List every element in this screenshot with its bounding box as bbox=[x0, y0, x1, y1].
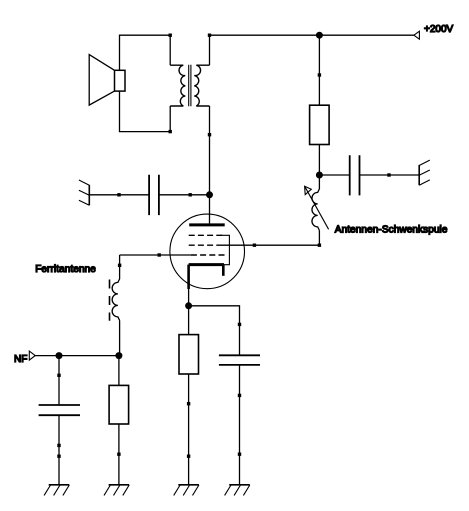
pin marker on L1 top lead bbox=[118, 264, 121, 267]
arrow through L2 bbox=[305, 186, 329, 229]
node junction NF / C4 bbox=[56, 352, 63, 359]
wire R2 bottom to ground bbox=[188, 374, 190, 485]
tube V1 cathode bbox=[189, 263, 224, 266]
wire C4 to ground bbox=[58, 415, 60, 485]
pin marker on C1 right wire bbox=[189, 193, 192, 196]
wire node to R2 bbox=[188, 306, 190, 335]
pin marker transformer secondary bottom bbox=[208, 133, 211, 136]
svg-text:Antennen-Schwenkspule: Antennen-Schwenkspule bbox=[335, 224, 448, 235]
pin marker on R3 ground wire bbox=[117, 453, 120, 456]
pin marker on C4 ground wire lower bbox=[57, 455, 60, 458]
tube V1 cathode left leg thick bbox=[187, 265, 190, 289]
tube V1 plate bbox=[189, 223, 225, 226]
wire g1 to ferrite antenna bbox=[120, 254, 191, 256]
pin marker on R1 top wire bbox=[318, 73, 321, 76]
pin marker on R2 ground wire lower bbox=[187, 455, 190, 458]
svg-text:+200V: +200V bbox=[424, 24, 454, 35]
pin marker transformer primary bottom bbox=[169, 130, 172, 133]
wire speaker bottom to transformer primary bbox=[120, 91, 171, 132]
pin marker corner L2/g2 wire bbox=[318, 244, 321, 247]
transformer TR1 primary coil bbox=[170, 65, 185, 106]
wire R3 bottom to ground bbox=[118, 424, 120, 485]
pin marker transformer primary top bbox=[169, 34, 172, 37]
wire C3 bottom to ground bbox=[239, 365, 241, 485]
wire node to C2 bbox=[319, 174, 349, 176]
wire +200V rail bbox=[210, 34, 414, 36]
pin marker on C3 ground wire upper bbox=[238, 394, 241, 397]
wire C2 to ground bbox=[360, 174, 420, 176]
svg-text:Ferritantenne: Ferritantenne bbox=[35, 264, 96, 275]
pin marker on C1 left wire bbox=[117, 193, 120, 196]
node junction cathode / R2 / C3 bbox=[185, 302, 192, 309]
resistor R3 bbox=[109, 385, 129, 424]
tube V1 envelope bbox=[170, 214, 245, 289]
wire C1 right plate to anode node bbox=[159, 194, 210, 196]
wire ground to C1 left plate bbox=[89, 194, 149, 196]
pin marker transformer secondary top bbox=[208, 34, 211, 37]
ferrite core dashed bbox=[109, 280, 111, 321]
ground symbol 3 bbox=[174, 485, 199, 496]
node junction top rail / R1 bbox=[316, 32, 323, 39]
pin marker on g1 wire bbox=[158, 253, 161, 256]
wire primary top lead bbox=[169, 35, 171, 65]
pin marker on R2 ground wire upper bbox=[187, 402, 190, 405]
transformer TR1 core bbox=[189, 65, 191, 107]
wire corner down to L1 bbox=[119, 255, 121, 279]
wire g2 to L2 bbox=[222, 244, 320, 246]
terminal +200V bbox=[414, 31, 420, 39]
ground chassis right bbox=[419, 160, 430, 185]
ground symbol 2 bbox=[104, 485, 129, 496]
capacitor C3 bbox=[219, 355, 260, 365]
wire R1 bottom to node bbox=[318, 145, 320, 176]
pin marker on C4 ground wire upper bbox=[57, 444, 60, 447]
node junction anode / C1 bbox=[206, 191, 213, 198]
pin marker on C3 top lead bbox=[238, 323, 241, 326]
tube V1 g3 tie to cathode bbox=[220, 235, 229, 264]
wire primary bottom lead bbox=[169, 106, 171, 132]
speaker LS1 bbox=[89, 55, 125, 106]
tube V1 grid g3 (top, dashed) bbox=[189, 234, 223, 236]
pin marker on C4 top lead bbox=[57, 374, 60, 377]
inductor L2 Antennen-Schwenkspule bbox=[312, 189, 319, 231]
wire node to C3 branch bbox=[189, 306, 240, 356]
wire junction to R1 bbox=[318, 35, 320, 105]
svg-text:NF: NF bbox=[14, 354, 27, 365]
wire secondary top lead bbox=[209, 35, 211, 65]
resistor R1 bbox=[310, 105, 330, 144]
pin marker on C2 ground wire bbox=[387, 173, 390, 176]
wire node to L2 bbox=[318, 175, 320, 189]
tube V1 cathode right stub bbox=[222, 265, 225, 276]
node junction ferrite / R3 bbox=[115, 352, 122, 359]
wire cathode leg to node bbox=[188, 289, 190, 306]
pin marker on C3 ground wire lower bbox=[238, 453, 241, 456]
transformer TR1 secondary coil bbox=[194, 65, 209, 106]
wire L1 bottom to NF node bbox=[118, 320, 121, 355]
ground symbol 1 bbox=[44, 485, 69, 496]
ground chassis left bbox=[79, 180, 89, 205]
wire NF to node bbox=[35, 355, 119, 357]
wire anode: transformer secondary bottom down to tube plate bbox=[209, 106, 211, 223]
capacitor C2 bbox=[350, 155, 360, 195]
wire speaker top to transformer primary bbox=[120, 35, 171, 70]
terminal NF bbox=[29, 351, 35, 360]
wire node to C4 bbox=[58, 356, 60, 405]
tube V1 grid g1 (bottom, dashed) bbox=[191, 254, 226, 256]
capacitor C1 bbox=[149, 175, 159, 215]
tube V1 grid g2 (middle, dashed) bbox=[189, 244, 222, 246]
capacitor C4 bbox=[39, 405, 80, 415]
wire node to R3 bbox=[118, 356, 120, 386]
node junction R1 / C2 / L2 bbox=[316, 172, 323, 179]
inductor L1 Ferritantenne coil bbox=[112, 279, 119, 320]
pin marker on g2 wire bbox=[253, 244, 256, 247]
resistor R2 bbox=[179, 335, 199, 374]
wire L2 bottom to corner bbox=[318, 230, 320, 245]
ground symbol 4 bbox=[225, 485, 250, 496]
